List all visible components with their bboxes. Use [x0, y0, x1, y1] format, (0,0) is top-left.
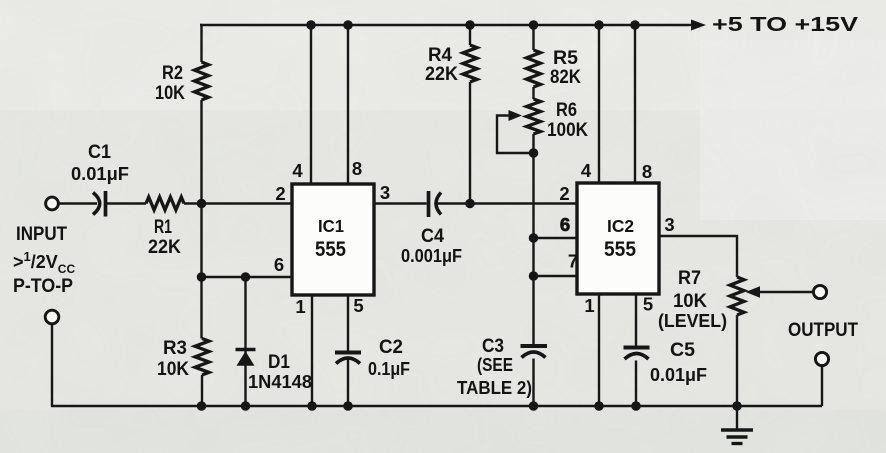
svg-text:R6: R6	[556, 99, 577, 121]
svg-text:6: 6	[560, 214, 570, 235]
svg-text:4: 4	[292, 160, 303, 181]
svg-text:10K: 10K	[155, 82, 185, 104]
svg-text:R3: R3	[163, 337, 187, 359]
svg-text:4: 4	[581, 160, 592, 181]
svg-text:IC2: IC2	[607, 216, 634, 236]
svg-text:+5 TO +15V: +5 TO +15V	[712, 14, 859, 36]
svg-text:1: 1	[584, 295, 594, 316]
svg-text:(LEVEL): (LEVEL)	[658, 310, 727, 331]
svg-text:22K: 22K	[148, 236, 181, 258]
svg-text:7: 7	[568, 251, 578, 272]
svg-text:2: 2	[275, 183, 285, 204]
svg-text:22K: 22K	[425, 63, 458, 85]
svg-text:555: 555	[315, 238, 346, 261]
svg-text:R2: R2	[162, 62, 183, 84]
svg-text:OUTPUT: OUTPUT	[788, 320, 858, 341]
svg-text:C5: C5	[670, 339, 695, 361]
svg-text:8: 8	[642, 161, 652, 182]
svg-text:82K: 82K	[550, 66, 581, 88]
svg-text:2: 2	[559, 183, 569, 204]
svg-text:0.01μF: 0.01μF	[71, 163, 129, 184]
svg-text:100K: 100K	[547, 119, 588, 141]
svg-text:TABLE 2): TABLE 2)	[457, 377, 532, 398]
svg-text:10K: 10K	[157, 358, 189, 380]
svg-text:1: 1	[295, 296, 305, 317]
svg-text:6: 6	[274, 254, 284, 275]
svg-text:1N4148: 1N4148	[248, 371, 312, 392]
svg-text:R1: R1	[154, 216, 172, 238]
svg-text:C2: C2	[379, 336, 403, 358]
svg-text:D1: D1	[268, 351, 290, 373]
svg-text:P-TO-P: P-TO-P	[13, 276, 73, 297]
svg-text:3: 3	[664, 214, 674, 235]
svg-text:C1: C1	[88, 141, 111, 163]
svg-text:C4: C4	[421, 225, 444, 247]
svg-text:5: 5	[643, 294, 653, 315]
svg-text:8: 8	[352, 158, 362, 179]
svg-text:0.01μF: 0.01μF	[650, 364, 707, 385]
svg-text:0.1μF: 0.1μF	[368, 358, 410, 379]
svg-text:10K: 10K	[673, 290, 707, 312]
svg-text:R7: R7	[678, 267, 701, 289]
svg-text:0.001μF: 0.001μF	[401, 245, 462, 266]
svg-text:(SEE: (SEE	[477, 354, 513, 375]
svg-text:IC1: IC1	[318, 216, 344, 236]
svg-text:5: 5	[353, 295, 363, 316]
svg-text:INPUT: INPUT	[16, 224, 67, 245]
svg-text:3: 3	[380, 182, 390, 203]
svg-text:555: 555	[604, 238, 636, 261]
